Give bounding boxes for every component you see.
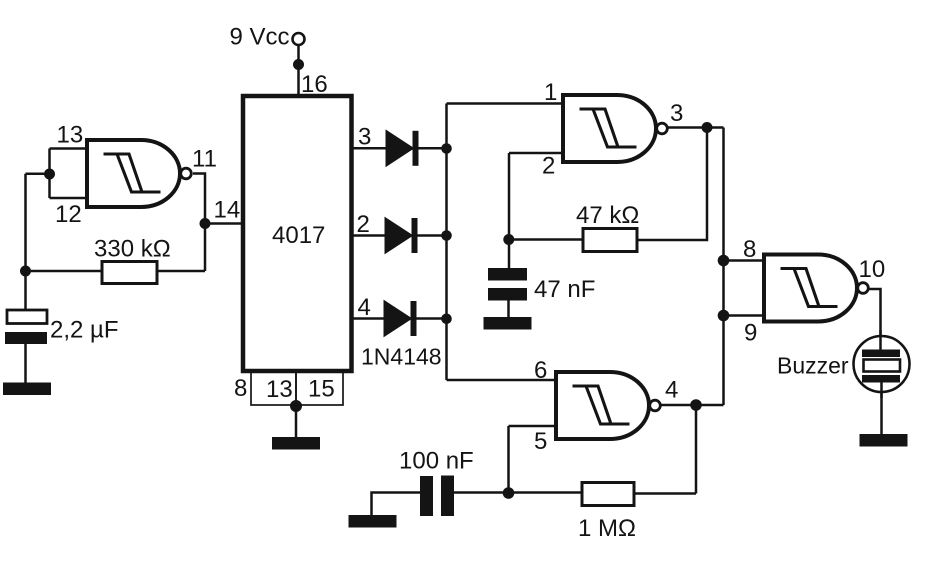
wire diode2 to bus [417,234,447,237]
svg-text:9 Vcc: 9 Vcc [230,24,290,51]
4017 bottom pin box 15 [296,371,343,405]
Vcc terminal circle [293,33,305,45]
wire diode3 to bus [418,147,447,150]
wire pin12 stub [50,197,89,200]
wire Vcc to 4017 pin16 [297,45,300,96]
wire nand4 output [869,289,881,337]
node nand1 inputs [44,169,55,180]
svg-text:2,2 µF: 2,2 µF [50,317,119,344]
svg-text:47 nF: 47 nF [534,276,595,303]
wire node to tie [26,172,50,175]
node diode3-bus [441,143,452,154]
svg-text:15: 15 [308,376,335,403]
wire bus to nand2 pin1 [447,102,564,105]
node pin8 [718,255,730,267]
node Vcc [293,59,304,70]
svg-text:3: 3 [670,100,683,127]
wire node to 330k [26,270,103,273]
svg-text:1 MΩ: 1 MΩ [578,515,636,542]
diode D1 1N4148 (pin 3) [386,130,419,166]
wire nand3 output [661,404,724,407]
diode D3 1N4148 (pin 4) [384,301,417,337]
wire input tie vertical [48,149,51,199]
svg-text:1: 1 [544,79,557,106]
wire cap to ground [24,344,27,384]
wire pin5 vertical [507,426,510,493]
buzzer element middle box [864,360,901,372]
node RC left [20,266,31,277]
node pin9 [718,310,730,322]
wire 4017 gnd pins to ground [295,405,298,438]
svg-text:4017: 4017 [272,222,325,249]
wire vertical resistor to pin14 node [204,224,207,272]
wire pin9 [724,314,765,317]
wire output4 down to 1M [695,405,698,494]
resistor 47 kOhm body [583,229,637,252]
wire 100nF left [372,493,421,517]
svg-text:330 kΩ: 330 kΩ [94,236,171,263]
capacitor 2,2 uF plate + [7,310,47,324]
ground under 47nF [484,317,532,330]
svg-text:13: 13 [57,122,84,149]
wire nand2 pin2 [509,152,563,155]
wire out of buzzer bottom [880,380,883,398]
wire bus to nand3 pin6 [447,379,557,382]
nand gate U4 (pins 8,9 -> 10) [764,255,868,322]
node diode2-bus [441,230,452,241]
svg-text:14: 14 [214,197,241,224]
svg-text:16: 16 [301,71,328,98]
capacitor 2,2 uF plate - [5,332,47,344]
wire nand2 output [668,126,724,129]
ground left of 100nF [349,515,397,528]
node diode4-bus [441,314,452,325]
svg-text:8: 8 [234,375,247,402]
node 47k-47nF [503,234,514,245]
wire pin13 stub [50,147,89,150]
ground under buzzer [860,434,908,447]
svg-text:Buzzer: Buzzer [777,353,849,379]
buzzer body circle [854,336,910,392]
svg-text:4: 4 [358,294,371,321]
node pin14 [200,218,211,229]
nand gate U3 (pins 6,5 -> 4) [556,372,660,439]
svg-text:5: 5 [534,428,547,455]
wire 4017 pin2 to diode [352,234,386,237]
wire 330k to vertical [157,270,205,273]
wire node to cap 2.2uF [24,271,27,310]
wire pin2 vertical to 47nF [508,153,511,268]
svg-text:12: 12 [55,201,82,228]
wire into buzzer top [879,330,882,351]
node nand3 out [690,399,702,411]
resistor 330 kOhm body [102,262,157,284]
wire 47nF to ground [507,301,510,318]
capacitor 47 nF plate 1 [488,268,527,281]
wire nand1 output [193,174,205,224]
ground under 2.2uF [3,383,51,396]
capacitor 100 nF plate 1 [420,476,433,516]
svg-text:10: 10 [859,256,886,283]
wire 47k to nand2 output node [637,128,707,241]
wire node to 47k [509,238,583,241]
IC 4017 body [243,96,352,371]
svg-text:13: 13 [266,376,293,403]
svg-text:8: 8 [743,236,756,263]
4017 bottom pin box 13 [251,371,296,405]
wire 1M right [634,492,696,495]
wire left vertical down [24,174,27,271]
node 100nF-pin5 [503,487,515,499]
resistor 1 MOhm body [582,483,634,506]
wire pin14 to 4017 [205,222,243,225]
node 4017 gnd pins [290,400,302,412]
svg-text:2: 2 [542,153,555,180]
wire right bus vertical [722,128,725,406]
buzzer element bottom bar [862,375,900,383]
capacitor 100 nF plate 2 [441,476,454,517]
svg-text:6: 6 [534,357,547,384]
wire pin8 [724,259,765,262]
svg-text:3: 3 [358,124,371,151]
capacitor 47 nF plate 2 [488,288,527,301]
diode D2 1N4148 (pin 2) [385,218,418,254]
svg-text:4: 4 [665,377,678,404]
ground under 4017 [272,437,320,450]
wire nand3 pin5 [509,425,557,428]
wire 4017 pin3 to diode [352,147,387,150]
wire 4017 pin4 to diode [352,317,385,320]
node nand2 out [702,122,713,133]
svg-text:100 nF: 100 nF [399,448,474,475]
svg-text:47 kΩ: 47 kΩ [576,202,639,229]
svg-text:1N4148: 1N4148 [361,344,442,370]
nand gate U2 (pins 1,2 -> 3) [563,95,667,162]
svg-text:2: 2 [357,211,370,238]
wire 100nF to 1M [454,491,582,494]
wire diode bus vertical [445,104,448,381]
wire buzzer to ground [880,391,883,435]
wire diode4 to bus [416,317,447,320]
svg-text:11: 11 [192,146,217,173]
buzzer element top bar [862,350,900,358]
svg-text:9: 9 [744,320,757,347]
nand gate U1 (pins 13,12 -> 11) [87,140,191,207]
